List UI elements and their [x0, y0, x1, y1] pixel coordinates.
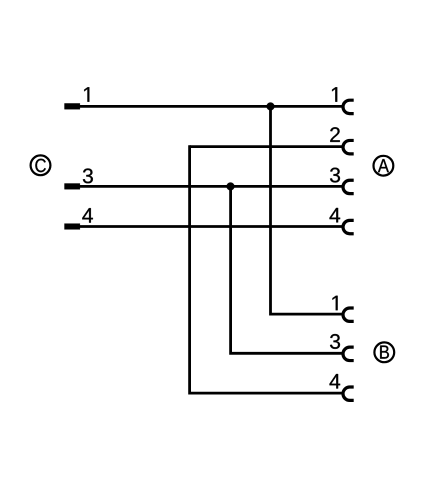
pin label 1 (connector C) — [84, 87, 89, 101]
pin label 3 (connector B) — [330, 334, 340, 349]
pin label 4 (connector B) — [330, 374, 341, 388]
pin label 1 (connector B) — [332, 296, 337, 310]
connector label B circle — [374, 342, 394, 362]
socket contact B4 — [343, 387, 354, 400]
pin label 4 (connector A) — [330, 208, 341, 222]
pin label 4 (connector C) — [82, 208, 93, 222]
pin label 1 (connector A) — [332, 87, 337, 101]
wire junction 1 down to B1 — [271, 106, 343, 314]
junction dot on wire C1-A1 — [267, 103, 275, 111]
socket contact A4 — [343, 220, 354, 233]
wire junction 2 down to B3 — [231, 186, 342, 353]
wire C1 to A1 — [66, 105, 342, 108]
wire C4 to A4 — [66, 225, 342, 228]
connector C pin 4 blade terminal — [65, 224, 80, 230]
connector label A circle — [374, 156, 394, 176]
socket contact B1 — [343, 308, 354, 321]
socket contact A1 — [343, 100, 354, 113]
socket contact A3 — [343, 180, 354, 193]
connector label C circle — [31, 155, 51, 175]
wire A2 down to B4 — [190, 145, 342, 393]
pin label 3 (connector A) — [330, 168, 340, 183]
connector label B letter — [380, 346, 389, 359]
connector C pin 3 blade terminal — [65, 184, 80, 190]
socket contact A2 — [343, 140, 354, 153]
pin label 3 (connector C) — [83, 168, 93, 183]
socket contact B3 — [343, 347, 354, 360]
pin label 2 (connector A) — [330, 127, 340, 142]
wire C3 to A3 — [66, 185, 342, 188]
connector C pin 1 blade terminal — [65, 103, 80, 109]
wire to A2 — [190, 145, 342, 148]
junction dot on wire C3-A3 — [227, 183, 235, 191]
connector label A letter — [378, 159, 389, 172]
connector label C letter — [35, 159, 45, 172]
